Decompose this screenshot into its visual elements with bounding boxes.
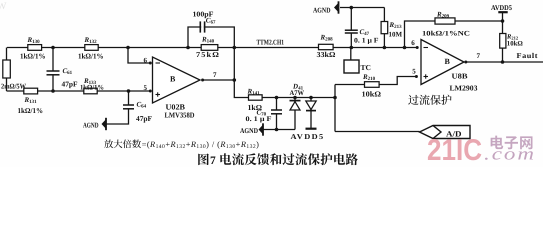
svg-text:1kΩ/1%: 1kΩ/1%: [18, 106, 44, 115]
svg-text:33kΩ: 33kΩ: [317, 50, 336, 59]
svg-text:AGND: AGND: [240, 127, 258, 135]
svg-text:LMV358D: LMV358D: [165, 111, 196, 120]
svg-text:75kΩ: 75kΩ: [196, 50, 220, 59]
svg-text:LM2903: LM2903: [450, 84, 478, 93]
svg-text:Fault: Fault: [517, 51, 539, 60]
svg-text:47pF: 47pF: [62, 80, 79, 89]
svg-text:0. 1 μ F: 0. 1 μ F: [354, 37, 379, 45]
svg-text:AVDD5: AVDD5: [491, 4, 512, 12]
svg-text:10M: 10M: [389, 31, 403, 39]
svg-text:B: B: [445, 57, 451, 66]
svg-text:A7W: A7W: [290, 89, 305, 97]
svg-text:1kΩ/1%: 1kΩ/1%: [80, 83, 104, 91]
svg-text:7: 7: [477, 52, 481, 60]
svg-text:100pF: 100pF: [193, 10, 215, 19]
svg-text:.com: .com: [484, 144, 536, 164]
svg-text:U8B: U8B: [452, 72, 468, 81]
svg-text:AGND: AGND: [313, 7, 331, 15]
svg-text:1kΩ/1%: 1kΩ/1%: [20, 52, 46, 61]
svg-text:21IC: 21IC: [427, 134, 482, 167]
svg-text:5: 5: [144, 84, 148, 92]
svg-text:5: 5: [412, 68, 416, 76]
svg-text:2mΩ/5W: 2mΩ/5W: [1, 83, 27, 91]
svg-text:0. 1 μ F: 0. 1 μ F: [246, 115, 272, 123]
svg-text:B: B: [170, 75, 176, 84]
svg-text:47pF: 47pF: [136, 114, 153, 123]
svg-text:10kΩ: 10kΩ: [362, 90, 382, 99]
svg-text:TC: TC: [361, 63, 371, 72]
svg-text:AVDD5: AVDD5: [291, 132, 325, 141]
svg-text:1kΩ/1%: 1kΩ/1%: [78, 52, 104, 61]
svg-text:10kΩ: 10kΩ: [507, 40, 524, 47]
svg-text:10kΩ/1%NC: 10kΩ/1%NC: [422, 30, 470, 37]
svg-text:W: W: [0, 1, 7, 12]
svg-text:7: 7: [210, 155, 216, 167]
svg-text:TTM2.CH1: TTM2.CH1: [257, 38, 285, 46]
svg-text:AGND: AGND: [83, 121, 99, 129]
svg-text:6: 6: [411, 39, 415, 47]
svg-text:6: 6: [144, 57, 148, 65]
svg-text:7: 7: [213, 71, 217, 79]
